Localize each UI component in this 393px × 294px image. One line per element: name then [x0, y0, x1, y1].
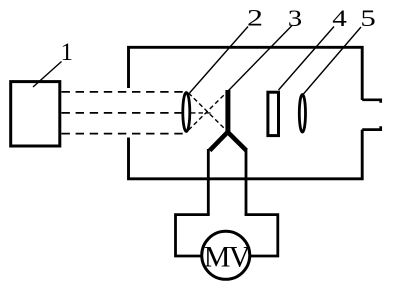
left wire step [176, 215, 210, 256]
right wire down [245, 149, 248, 215]
leader line to bar 3 [228, 26, 292, 92]
lens 2 [183, 93, 190, 132]
label 3 [288, 4, 302, 31]
label 4 [332, 5, 347, 32]
dashed ray lens-top to bar-bottom [189, 93, 228, 132]
thermocouple bar 3 [225, 90, 230, 132]
svg-text:MV: MV [204, 240, 251, 273]
leader line to box 1 [33, 62, 62, 88]
thermocouple Y legs [210, 132, 247, 151]
leader line to slit 4 [279, 27, 335, 91]
dashed ray lens-bottom to bar-top [189, 92, 228, 131]
slit plate 4 [268, 92, 279, 135]
svg-text:4: 4 [332, 5, 347, 32]
lens 5 [299, 95, 305, 133]
dashed beam top [62, 91, 184, 93]
leader line to lens 2 [190, 27, 249, 94]
right wire step [245, 215, 278, 256]
dashed axis segment [191, 112, 214, 114]
svg-text:2: 2 [247, 5, 263, 31]
svg-text:5: 5 [360, 5, 375, 31]
millivoltmeter MV [202, 231, 250, 279]
source box 1 [11, 82, 60, 146]
left wire down [207, 149, 210, 215]
label 2 [247, 5, 263, 31]
right wall top stub [362, 100, 381, 103]
leader line to lens 5 [303, 27, 361, 95]
label 5 [360, 5, 375, 31]
main enclosure box [129, 47, 363, 179]
right wall bottom stub [362, 126, 381, 129]
svg-text:1: 1 [61, 39, 74, 66]
dashed beam middle [62, 112, 184, 114]
dashed beam bottom [62, 133, 184, 135]
